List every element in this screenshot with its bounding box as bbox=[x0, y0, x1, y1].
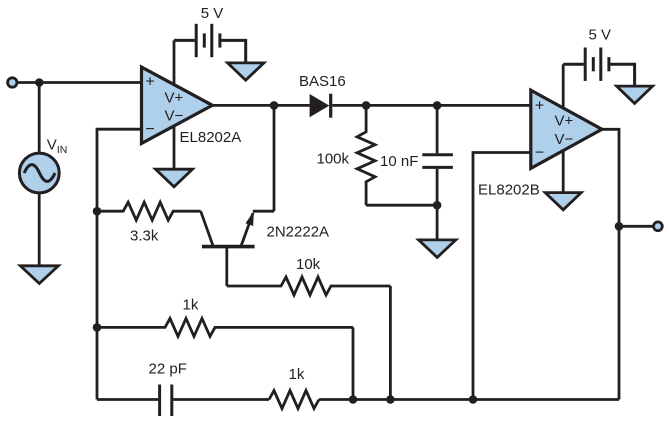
wire op-amp B V+ V- pins bbox=[562, 64, 565, 192]
source VIN bbox=[19, 153, 59, 193]
output terminal bbox=[654, 222, 663, 231]
diode D1 BAS16 bbox=[310, 94, 331, 118]
svg-text:V+: V+ bbox=[165, 90, 184, 107]
resistor 1k feedback bbox=[97, 318, 353, 336]
node 100k top bbox=[362, 101, 371, 110]
op-amp U2 EL8202B bbox=[531, 90, 602, 168]
svg-text:2N2222A: 2N2222A bbox=[267, 224, 330, 241]
svg-text:V+: V+ bbox=[555, 112, 574, 129]
wire op-amp B - input from bottom rail bbox=[473, 153, 531, 400]
wire op-amp A output to diode bbox=[212, 104, 310, 107]
svg-text:−: − bbox=[145, 121, 154, 138]
resistor 10k bbox=[227, 277, 391, 295]
svg-text:5 V: 5 V bbox=[589, 27, 612, 44]
svg-text:100k: 100k bbox=[317, 151, 350, 168]
wire 1k to bottom rail bbox=[352, 327, 355, 399]
svg-text:−: − bbox=[535, 145, 544, 162]
battery 5V for op-amp A bbox=[174, 24, 246, 63]
wire output node down to emitter bbox=[273, 105, 276, 211]
input terminal bbox=[8, 78, 17, 87]
transistor Q1 2N2222A bbox=[201, 211, 255, 286]
svg-text:5 V: 5 V bbox=[201, 5, 224, 22]
wire op-amp A V+ pin bbox=[173, 40, 176, 86]
wire op-amp B output down to bottom rail bbox=[602, 129, 619, 399]
capacitor 10nF bbox=[422, 105, 453, 205]
resistor 3.3k bbox=[97, 202, 201, 220]
resistor 1k bottom bbox=[269, 391, 319, 409]
svg-text:22 pF: 22 pF bbox=[149, 360, 187, 377]
node op-amp B output bbox=[615, 222, 624, 231]
node bottom rail 1k bbox=[349, 395, 358, 404]
resistor 100k bbox=[357, 105, 375, 205]
wire VIN to ground bbox=[38, 193, 41, 266]
wire diode to op-amp B + bbox=[332, 104, 530, 107]
svg-text:+: + bbox=[535, 98, 544, 115]
ground for battery B bbox=[617, 86, 653, 103]
ground for RC node bbox=[419, 240, 456, 258]
svg-text:10k: 10k bbox=[296, 256, 321, 273]
node bottom rail 10k bbox=[386, 395, 395, 404]
wire op-amp A V- pin bbox=[173, 125, 176, 169]
capacitor 22pF bbox=[160, 385, 172, 417]
node bottom rail op-amp B - bbox=[469, 395, 478, 404]
node 1k feedback bbox=[93, 323, 102, 332]
op-amp U1 EL8202A bbox=[142, 67, 213, 143]
ground for op-amp B V- bbox=[545, 193, 581, 210]
svg-text:+: + bbox=[145, 74, 154, 91]
wire bottom rail left of capacitor bbox=[97, 398, 158, 401]
ground below VIN bbox=[20, 266, 58, 284]
svg-text:EL8202B: EL8202B bbox=[478, 182, 540, 199]
node input bbox=[35, 78, 44, 87]
ground for op-amp A V- bbox=[156, 169, 193, 187]
svg-text:EL8202A: EL8202A bbox=[180, 129, 242, 146]
node 3.3k bbox=[93, 207, 102, 216]
svg-text:VIN: VIN bbox=[47, 137, 68, 156]
wire input to op-amp A + bbox=[17, 81, 142, 84]
wire op-amp A - input feedback rail bbox=[97, 129, 142, 399]
wire 100k bottom to capacitor bottom bbox=[366, 204, 437, 207]
node op-amp A output bbox=[270, 101, 279, 110]
wire input node down to VIN source bbox=[38, 83, 41, 154]
svg-text:V−: V− bbox=[555, 131, 574, 148]
ground for battery A bbox=[228, 63, 264, 80]
wire 10k to bottom rail bbox=[389, 286, 392, 400]
svg-text:3.3k: 3.3k bbox=[130, 228, 159, 245]
svg-text:BAS16: BAS16 bbox=[299, 73, 346, 90]
svg-text:1k: 1k bbox=[183, 297, 199, 314]
battery 5V for op-amp B bbox=[563, 48, 634, 87]
svg-text:10 nF: 10 nF bbox=[380, 153, 418, 170]
wire emitter to output node bbox=[253, 210, 274, 213]
node 10nF top bbox=[433, 101, 442, 110]
node RC ground bbox=[433, 201, 442, 210]
svg-text:1k: 1k bbox=[289, 366, 305, 383]
wire bottom rail right bbox=[319, 398, 619, 401]
wire output node to terminal bbox=[619, 225, 654, 228]
wire RC node to ground bbox=[436, 205, 439, 240]
svg-text:V−: V− bbox=[165, 108, 184, 125]
wire bottom rail capacitor to 1k bbox=[173, 398, 269, 401]
